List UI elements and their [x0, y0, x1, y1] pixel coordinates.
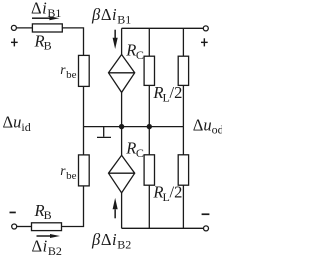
arrow dIB2: [37, 235, 51, 237]
ground: [97, 127, 111, 138]
terminal - input bottom-left: [12, 224, 17, 229]
resistor rbe bottom: [79, 155, 90, 186]
resistor RC top: [144, 56, 154, 85]
wire rbe top to mid rail: [83, 86, 85, 126]
wire top rail: [122, 27, 204, 29]
wire input top to RB: [16, 27, 32, 29]
wire RC bottom to bottom rail: [148, 185, 150, 228]
wire mid rail to RL/2 bottom: [182, 127, 184, 155]
label plus input (+): [11, 42, 18, 43]
wire source1 to mid rail: [121, 92, 123, 126]
wire top rail to RL/2 top: [182, 28, 184, 56]
junction dot node C1 (RC/mid rail): [147, 124, 152, 129]
resistor RB top: [32, 24, 62, 32]
label plus output (+): [201, 42, 208, 43]
wire RB bottom to rbe bottom: [62, 186, 84, 227]
resistor RB bottom: [32, 223, 62, 231]
wire RC top to mid rail: [148, 85, 150, 126]
wire top rail to RC top: [148, 28, 150, 56]
current source beta*dIB1 (diamond): [109, 55, 135, 93]
resistor RL/2 bottom: [178, 155, 188, 185]
resistor RL/2 top: [178, 56, 188, 85]
arrow dIB1: [32, 17, 50, 19]
wire input bottom to RB: [17, 226, 32, 228]
arrow beta*dIB2 up: [114, 209, 116, 218]
wire RL/2 bottom to bottom rail: [182, 185, 184, 228]
wire RB top to node B1: [62, 28, 83, 56]
terminal - output bottom-right: [204, 226, 209, 231]
terminal + output top-right: [203, 26, 208, 31]
terminal + input top-left: [11, 25, 16, 30]
label minus output (-): [202, 213, 210, 215]
label minus input (-): [10, 212, 16, 214]
wire rbe bottom to mid rail: [83, 127, 85, 155]
wire source2 to bottom rail: [121, 193, 123, 229]
arrow beta*dIB1 down: [114, 30, 116, 39]
wire mid rail to RC bottom: [148, 127, 150, 155]
resistor RC bottom: [144, 155, 154, 185]
wire mid rail to source2: [121, 127, 123, 156]
wire top rail to source1: [121, 28, 123, 54]
current source beta*dIB2 (diamond): [109, 155, 135, 193]
wire mid rail: [84, 126, 184, 128]
resistor rbe top: [79, 55, 90, 86]
wire bottom rail: [122, 227, 204, 229]
junction dot node E (source1/mid rail): [119, 124, 124, 129]
wire RL/2 top to mid rail: [182, 85, 184, 126]
